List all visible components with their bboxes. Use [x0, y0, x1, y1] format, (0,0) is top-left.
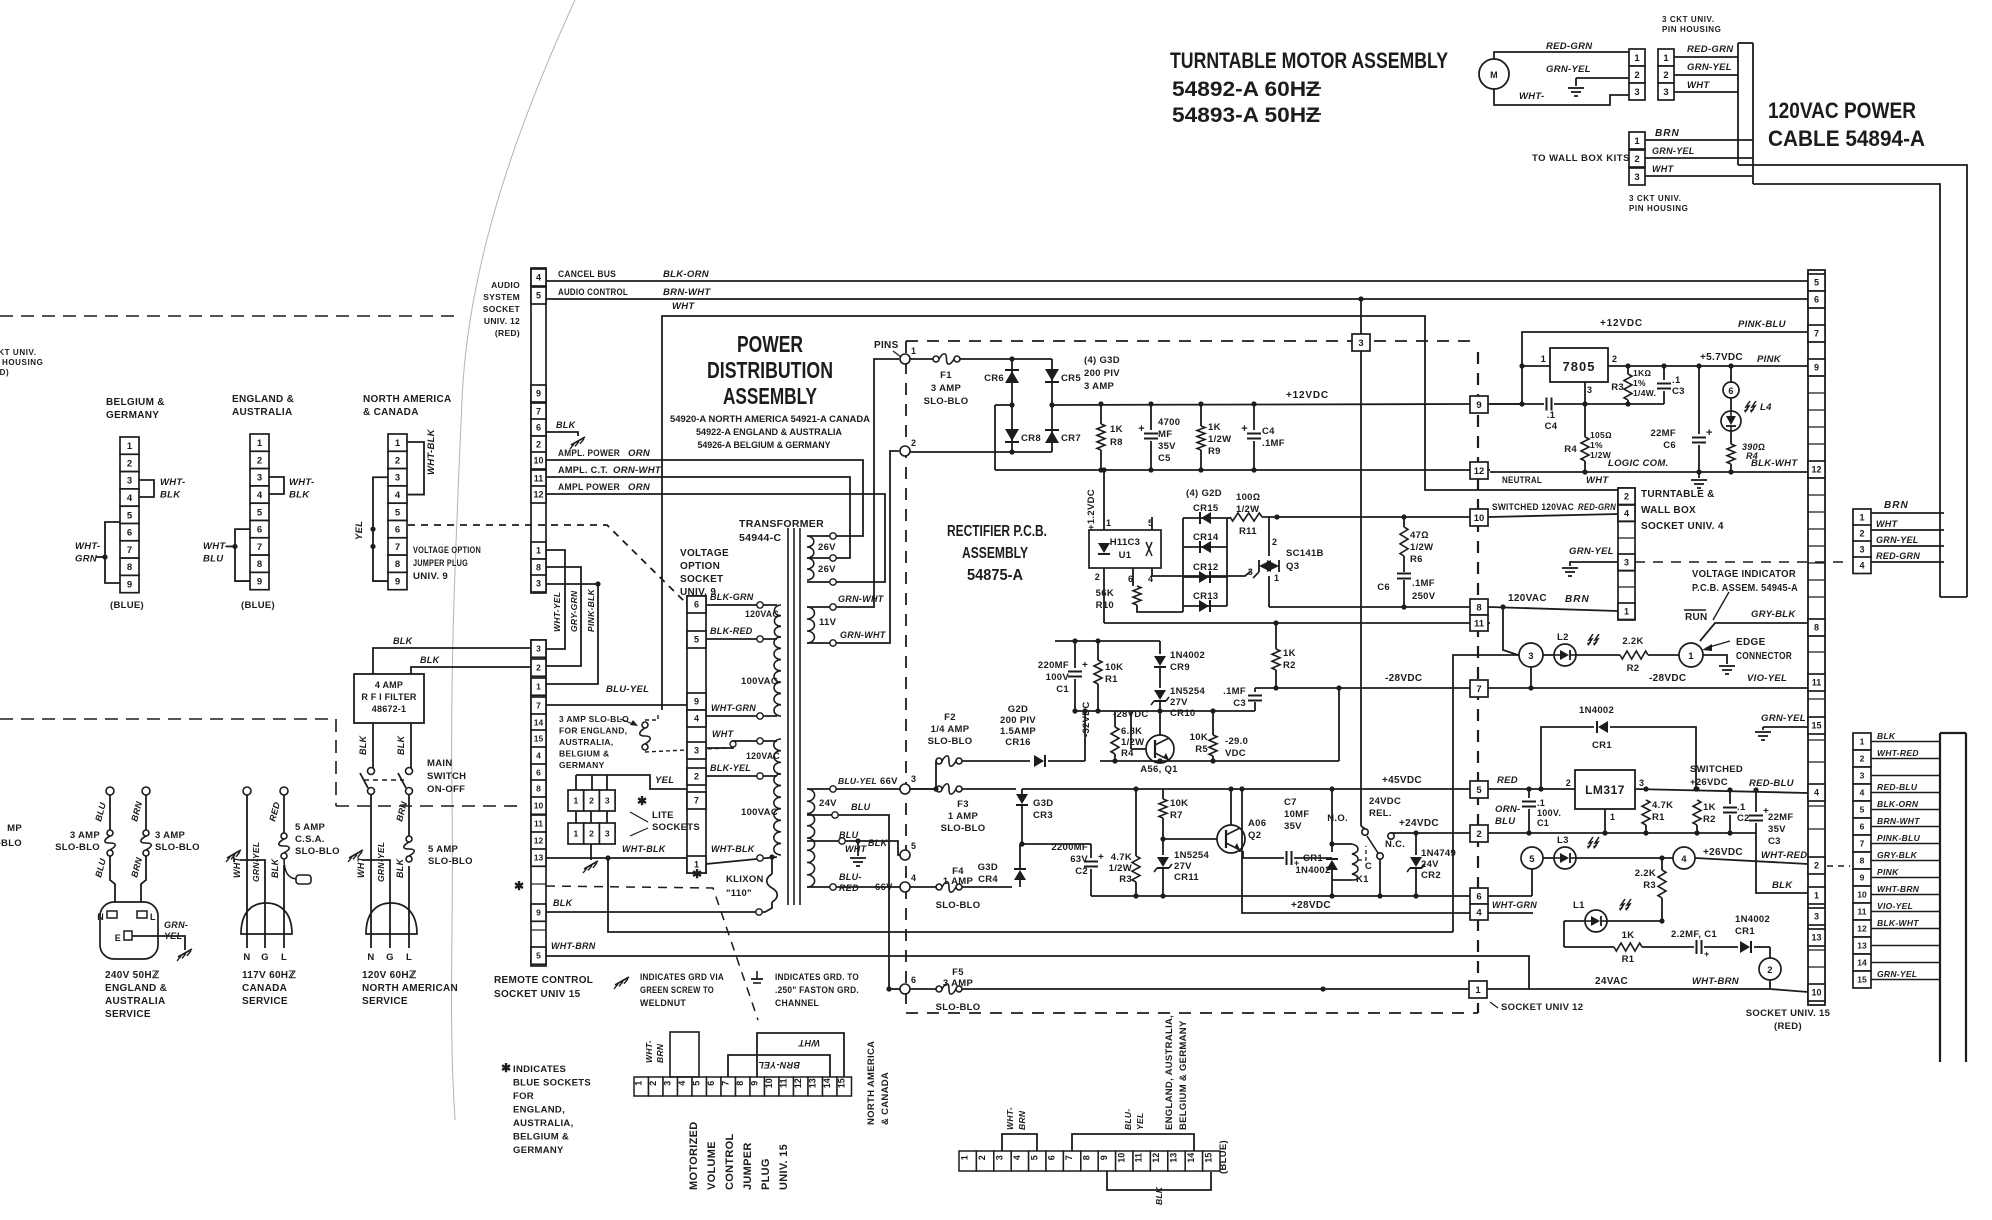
svg-text:SOCKETS: SOCKETS [652, 822, 700, 833]
ground 120V NA service [349, 850, 363, 858]
wire AMPL POWER ORN pin10 [546, 460, 863, 536]
svg-text:1: 1 [536, 682, 541, 692]
svg-text:100V.: 100V. [1537, 808, 1561, 818]
svg-text:+: + [1241, 423, 1248, 435]
svg-text:35V: 35V [1284, 821, 1302, 832]
svg-text:4: 4 [1012, 1155, 1022, 1160]
svg-text:2: 2 [589, 796, 594, 806]
svg-text:1N4002: 1N4002 [1579, 705, 1614, 716]
svg-text:9: 9 [694, 697, 699, 707]
svg-text:1N4002: 1N4002 [1735, 914, 1770, 925]
svg-text:PINK: PINK [1877, 867, 1899, 877]
svg-text:+26VDC: +26VDC [1690, 777, 1728, 788]
svg-text:WHT-: WHT- [644, 1040, 654, 1063]
svg-text:1N5254: 1N5254 [1174, 850, 1209, 861]
svg-text:1KΩ: 1KΩ [1633, 368, 1651, 378]
svg-text:YEL: YEL [1135, 1113, 1145, 1130]
svg-text:FOR: FOR [513, 1091, 534, 1102]
svg-text:1: 1 [1624, 606, 1629, 616]
svg-text:R3: R3 [1643, 880, 1656, 891]
svg-text:2: 2 [1612, 354, 1617, 364]
svg-text:BLK: BLK [160, 490, 181, 501]
svg-text:BLK: BLK [396, 734, 406, 755]
svg-text:12: 12 [1857, 924, 1867, 934]
svg-text:BLK: BLK [420, 655, 441, 665]
wire BLK RFI right output [410, 723, 412, 768]
pcb pin 1 circle [900, 354, 910, 364]
svg-text:4: 4 [1681, 854, 1687, 865]
svg-text:12: 12 [534, 836, 544, 846]
plug 240V England outline [100, 902, 158, 959]
wire F1 to bridge [960, 358, 1012, 360]
svg-text:3: 3 [605, 829, 610, 839]
svg-text:1: 1 [1610, 812, 1615, 822]
svg-text:2: 2 [536, 663, 541, 673]
svg-text:ENGLAND, AUSTRALIA,: ENGLAND, AUSTRALIA, [1164, 1015, 1175, 1130]
svg-text:RECTIFIER P.C.B.: RECTIFIER P.C.B. [947, 523, 1047, 540]
optoisolator U1 H11C3 [1103, 470, 1105, 530]
tap GRN-WHT bottom [807, 642, 831, 644]
jumper YEL pins3-9 North America [373, 477, 388, 581]
svg-text:A06: A06 [1248, 818, 1266, 829]
svg-text:BLU: BLU [1495, 816, 1516, 827]
resistor R1d 1K [1614, 943, 1642, 951]
wire logic common rail [995, 469, 1470, 471]
wire ORN-BLU box2 to LM317 pin1 [1490, 832, 1756, 834]
svg-text:6: 6 [536, 768, 541, 778]
svg-text:35V: 35V [1768, 824, 1786, 835]
svg-text:2: 2 [1814, 861, 1819, 871]
svg-text:BRN: BRN [1884, 500, 1909, 511]
svg-text:BLK: BLK [868, 838, 889, 848]
svg-text:UNIV. 9: UNIV. 9 [413, 571, 448, 582]
diode CR4 G3D [962, 886, 1012, 888]
bridge rails [1012, 358, 1052, 360]
tap 26V mid [807, 557, 831, 559]
svg-text:SERVICE: SERVICE [105, 1009, 151, 1020]
wire 24VAC to box1 [962, 988, 1469, 990]
wire switched 120 rail in pcb [1262, 516, 1470, 518]
svg-text:9: 9 [127, 579, 132, 590]
svg-text:10MF: 10MF [1284, 809, 1309, 820]
LED L4 [1730, 398, 1732, 411]
svg-text:L: L [406, 952, 412, 963]
svg-text:SLO-BLO: SLO-BLO [924, 396, 969, 407]
far right connector univ 15 [1853, 733, 1871, 750]
svg-text:14: 14 [1186, 1153, 1196, 1163]
wire GRN-YEL J2-2 [1645, 157, 1753, 159]
regulator LM317 [1575, 770, 1635, 809]
wire BRN cable [1871, 512, 1944, 514]
svg-text:.250" FASTON GRD.: .250" FASTON GRD. [775, 985, 859, 996]
svg-text:RED-GRN: RED-GRN [1876, 551, 1920, 561]
LED L2 [1543, 654, 1554, 656]
svg-text:INDICATES: INDICATES [513, 1064, 566, 1075]
wire 7805 pin3 [1584, 382, 1586, 404]
svg-text:1%: 1% [1633, 378, 1646, 388]
svg-text:8: 8 [536, 784, 541, 794]
svg-text:GRN-YEL: GRN-YEL [1877, 969, 1917, 979]
svg-text:3 CKT UNIV.: 3 CKT UNIV. [1629, 194, 1682, 203]
svg-text:MAIN: MAIN [427, 758, 452, 769]
svg-text:6: 6 [536, 423, 541, 433]
wire WHT-YEL audio pin1 to remote pin3 [546, 550, 565, 649]
svg-text:BELGIUM &: BELGIUM & [106, 397, 165, 408]
svg-text:✱: ✱ [514, 879, 524, 893]
svg-text:5: 5 [127, 510, 133, 521]
svg-text:VIO-YEL: VIO-YEL [1877, 901, 1913, 911]
resistor R1c 4.7K [1642, 800, 1650, 825]
resistor R2 1K upper [1275, 623, 1277, 649]
dashed callout to volume jumper [546, 886, 758, 1020]
svg-text:-BLO: -BLO [0, 838, 22, 849]
svg-text:5: 5 [694, 635, 699, 645]
svg-text:N: N [243, 952, 250, 963]
svg-text:REL.: REL. [1369, 808, 1392, 819]
svg-text:35V: 35V [1158, 441, 1176, 452]
svg-text:BRN: BRN [1017, 1110, 1027, 1130]
diode CR6 [1005, 371, 1019, 383]
far right connector 4 pin [1853, 509, 1871, 526]
dashed boundary bottom left [0, 718, 336, 720]
capacitor C1d 2.2MF [1642, 946, 1694, 948]
mini rail upper [1055, 640, 1160, 642]
svg-text:ORN-WHT: ORN-WHT [613, 465, 662, 476]
svg-text:WHT-: WHT- [1519, 91, 1544, 102]
pcb plug pin 9 box [1470, 403, 1490, 405]
svg-text:L3: L3 [1557, 835, 1569, 846]
indicator circle 5 [1521, 847, 1543, 869]
wire +12VDC rail [1052, 404, 1470, 405]
svg-text:R8: R8 [1110, 437, 1123, 448]
jumper WHT-BLU pins6-9 England [235, 529, 250, 581]
svg-text:C2: C2 [1075, 866, 1088, 877]
svg-text:N.O.: N.O. [1327, 813, 1348, 824]
resistor R3c 2.2K [1661, 858, 1663, 870]
terminal circles 240V plug [106, 787, 114, 795]
svg-text:1: 1 [1475, 985, 1481, 996]
ground audio pin6 [571, 437, 585, 445]
mini rail mid [1075, 710, 1255, 712]
svg-text:1/2W: 1/2W [1410, 542, 1433, 553]
svg-text:1: 1 [1859, 512, 1864, 522]
svg-text:BRN-WHT: BRN-WHT [663, 287, 711, 298]
wire U1 pin4 to triac gate [1152, 568, 1251, 576]
wire GRN-YEL cable [1871, 545, 1944, 547]
svg-text:1.5AMP: 1.5AMP [1000, 726, 1036, 737]
svg-text:SLO-BLO: SLO-BLO [928, 736, 973, 747]
svg-text:13: 13 [534, 853, 544, 863]
svg-text:3: 3 [1860, 771, 1865, 781]
svg-text:4 AMP: 4 AMP [375, 680, 403, 690]
plug 120V NA dome [366, 903, 417, 934]
svg-text:2: 2 [1272, 537, 1277, 547]
svg-text:CR4: CR4 [978, 874, 998, 885]
ground turntable socket [1562, 567, 1578, 569]
svg-text:120VAC: 120VAC [745, 609, 779, 620]
svg-text:5: 5 [536, 291, 541, 301]
svg-text:BLK: BLK [553, 898, 574, 908]
indicator circle 4 [1673, 847, 1695, 869]
svg-text:-28VDC: -28VDC [1649, 673, 1686, 684]
svg-text:1: 1 [911, 346, 916, 356]
fold crease line [451, 0, 575, 1120]
indicator circle 3 [1519, 643, 1543, 667]
svg-text:+24VDC: +24VDC [1399, 818, 1439, 829]
wire BLU fuse leg [109, 795, 111, 830]
svg-text:VOLTAGE: VOLTAGE [680, 548, 729, 559]
svg-text:ENGLAND &: ENGLAND & [105, 983, 167, 994]
svg-text:-29.0: -29.0 [1225, 736, 1248, 747]
svg-text:2: 2 [1859, 528, 1864, 538]
svg-text:WHT: WHT [712, 729, 735, 739]
svg-text:WHT-BLK: WHT-BLK [426, 428, 437, 475]
svg-text:-28VDC: -28VDC [1385, 673, 1422, 684]
capacitor C2c .1 [1729, 790, 1731, 804]
svg-text:3: 3 [536, 644, 541, 654]
svg-text:4: 4 [1860, 788, 1865, 798]
svg-text:1: 1 [536, 546, 541, 556]
svg-text:24VAC: 24VAC [1595, 976, 1628, 987]
svg-text:✱: ✱ [637, 794, 647, 808]
svg-text:CR2: CR2 [1421, 870, 1441, 881]
svg-text:WHT: WHT [845, 844, 868, 854]
svg-text:7: 7 [395, 542, 400, 553]
svg-text:CHANNEL: CHANNEL [775, 998, 819, 1009]
svg-text:(RED): (RED) [495, 328, 520, 338]
svg-text:Q3: Q3 [1286, 561, 1299, 572]
svg-text:1K: 1K [1208, 422, 1221, 433]
svg-text:3: 3 [995, 1155, 1005, 1160]
wire BRN below fuse [141, 856, 146, 902]
svg-text:WHT: WHT [1876, 519, 1899, 529]
svg-text:22MF: 22MF [1768, 812, 1793, 823]
svg-text:3: 3 [1639, 778, 1644, 788]
svg-text:SERVICE: SERVICE [242, 996, 288, 1007]
svg-text:2: 2 [1634, 154, 1639, 165]
svg-text:66V: 66V [875, 882, 893, 893]
svg-text:L2: L2 [1557, 632, 1569, 643]
wire CR3 CR4 junction [1020, 843, 1022, 845]
wire PINK-BLK audio pin3 to remote pin1 [546, 584, 598, 684]
svg-text:BLU: BLU [851, 802, 871, 812]
svg-text:UNIV. 15: UNIV. 15 [778, 1144, 790, 1190]
wire wht-blk long vertical right [1453, 655, 1519, 932]
ground note faston [756, 971, 758, 979]
svg-text:1: 1 [573, 829, 578, 839]
svg-text:9: 9 [257, 576, 262, 587]
svg-text:R F I FILTER: R F I FILTER [361, 692, 417, 702]
svg-text:5: 5 [1814, 278, 1819, 288]
svg-text:BLK: BLK [289, 490, 310, 501]
jumper box pins3-4 [670, 1032, 699, 1077]
svg-text:C.S.A.: C.S.A. [295, 834, 325, 845]
svg-text:3 AMP: 3 AMP [943, 978, 974, 989]
svg-text:RED-GRN: RED-GRN [1546, 41, 1593, 52]
svg-text:3: 3 [694, 746, 699, 756]
svg-text:CANCEL BUS: CANCEL BUS [558, 269, 616, 280]
svg-text:WALL BOX: WALL BOX [1641, 505, 1696, 516]
svg-text:BLK: BLK [270, 857, 280, 878]
svg-text:SWITCHED 120VAC: SWITCHED 120VAC [1492, 502, 1574, 513]
diode CR3 G3D [1016, 794, 1028, 804]
svg-text:NEUTRAL: NEUTRAL [1502, 475, 1542, 486]
capacitor C4 .1MF [1253, 404, 1255, 430]
wire switched 26 rail [1635, 789, 1808, 793]
wire +45 rail [1022, 788, 1163, 790]
svg-text:RED: RED [1497, 775, 1518, 786]
svg-text:4: 4 [1859, 560, 1864, 570]
svg-text:1N5254: 1N5254 [1170, 686, 1205, 697]
svg-text:PIN HOUSING: PIN HOUSING [1662, 25, 1722, 34]
wire RUN GRY-BLK to pin8 [1700, 623, 1808, 641]
capacitor C5 4700MF [1150, 404, 1152, 430]
svg-text:C3: C3 [1672, 386, 1685, 397]
svg-text:7: 7 [720, 1081, 730, 1086]
wire logic com to pin 12 [1490, 471, 1808, 473]
svg-text:12: 12 [1811, 465, 1821, 475]
right socket strip univ 15 [1808, 270, 1825, 1005]
svg-text:.1: .1 [1537, 798, 1545, 808]
jumper WHT-BLK pins3-4 England [269, 477, 284, 494]
svg-text:1/2W: 1/2W [1236, 504, 1259, 515]
svg-text:7: 7 [536, 701, 541, 711]
pcb pin 6 circle [900, 984, 910, 994]
svg-text:9: 9 [1814, 363, 1819, 373]
svg-text:4: 4 [536, 751, 541, 761]
svg-text:6: 6 [1476, 891, 1481, 902]
svg-text:8: 8 [1860, 856, 1865, 866]
svg-text:5: 5 [1029, 1155, 1039, 1160]
svg-text:GREEN SCREW TO: GREEN SCREW TO [640, 985, 714, 996]
svg-text:5 AMP: 5 AMP [428, 844, 459, 855]
svg-text:1: 1 [1688, 651, 1694, 662]
svg-text:9: 9 [395, 576, 400, 587]
svg-text:MF: MF [1158, 429, 1172, 440]
svg-text:SOCKET UNIV 15: SOCKET UNIV 15 [494, 989, 581, 1000]
svg-text:4: 4 [1476, 907, 1482, 918]
wire whtgrn box4 stub [1490, 912, 1533, 914]
triac Q3 SC141B [1268, 517, 1270, 556]
svg-text:GRN-YEL: GRN-YEL [1761, 713, 1806, 724]
svg-text:OPTION: OPTION [680, 561, 720, 572]
svg-text:C4: C4 [1545, 421, 1558, 432]
svg-text:3: 3 [1358, 338, 1363, 349]
svg-text:.1MF: .1MF [1262, 438, 1285, 449]
svg-text:11: 11 [534, 819, 543, 829]
plug 117V dome [241, 903, 292, 934]
svg-text:GRN-YEL: GRN-YEL [1876, 535, 1919, 545]
svg-text:GRN-YEL: GRN-YEL [1652, 146, 1695, 156]
svg-text:5: 5 [1860, 805, 1865, 815]
svg-text:CR12: CR12 [1193, 562, 1219, 573]
svg-text:.1: .1 [1672, 375, 1681, 386]
svg-text:4.7K: 4.7K [1652, 800, 1673, 811]
wire -28VDC to box7 [1255, 687, 1470, 689]
pcb plug pin 7 box [1470, 687, 1490, 689]
svg-text:3: 3 [662, 1081, 672, 1086]
svg-text:G3D: G3D [1033, 798, 1053, 809]
svg-text:LOGIC COM.: LOGIC COM. [1608, 458, 1669, 469]
svg-text:BRN: BRN [655, 1043, 665, 1063]
primary winding 100VAC upper [774, 637, 781, 716]
capacitor C3b .1 [1663, 366, 1665, 380]
wire RED-GRN cable [1871, 561, 1944, 563]
tap 26V top [807, 535, 831, 537]
svg-text:47Ω: 47Ω [1410, 530, 1429, 541]
svg-text:2: 2 [1476, 829, 1481, 840]
tap BLU-RED 66V bottom [807, 886, 831, 888]
svg-text:MOTORIZED: MOTORIZED [688, 1122, 700, 1191]
svg-text:BLK-YEL: BLK-YEL [710, 763, 751, 773]
wire BRN J2-1 [1645, 139, 1753, 141]
svg-text:13: 13 [1857, 941, 1867, 951]
jumper WHT-BLK pins3-4 Belgium [139, 480, 154, 497]
svg-text:RUN: RUN [1685, 612, 1708, 623]
svg-text:7: 7 [127, 545, 132, 556]
svg-text:EDGE: EDGE [1736, 637, 1766, 648]
svg-text:C6: C6 [1377, 582, 1390, 593]
tap BLU-WHT center [807, 840, 840, 842]
svg-text:Q2: Q2 [1248, 830, 1261, 841]
svg-text:ON-OFF: ON-OFF [427, 784, 465, 795]
svg-text:3 AMP SLO-BLO: 3 AMP SLO-BLO [559, 714, 629, 724]
svg-text:GRN-WHT: GRN-WHT [840, 630, 887, 640]
svg-text:GERMANY: GERMANY [106, 410, 159, 421]
svg-text:+: + [1098, 852, 1104, 863]
svg-text:120VAC: 120VAC [1508, 593, 1547, 604]
svg-text:100V: 100V [1046, 672, 1070, 683]
svg-text:WHT-BRN: WHT-BRN [1877, 884, 1920, 894]
svg-text:1: 1 [1634, 53, 1640, 64]
fuse 3 AMP SLO-BLO england dotted [642, 722, 648, 728]
svg-text:KLIXON: KLIXON [726, 874, 764, 885]
svg-text:UNIV. 12: UNIV. 12 [484, 316, 520, 326]
svg-text:WELDNUT: WELDNUT [640, 998, 686, 1009]
svg-text:12: 12 [533, 490, 543, 500]
svg-text:GRY-BLK: GRY-BLK [1877, 850, 1918, 860]
svg-text:2: 2 [1566, 778, 1571, 788]
svg-text:2: 2 [589, 829, 594, 839]
svg-text:F2: F2 [944, 712, 956, 723]
svg-text:AUSTRALIA,: AUSTRALIA, [513, 1118, 574, 1129]
svg-text:2: 2 [1624, 491, 1629, 501]
svg-text:1/2W: 1/2W [1208, 434, 1231, 445]
diode CR12 [1183, 576, 1227, 578]
diode CR7 [1045, 431, 1059, 443]
wire GRN-YEL pin15 ground [1763, 726, 1808, 728]
svg-text:4: 4 [1814, 788, 1819, 798]
ground 117V service [227, 850, 241, 858]
wire YEL lite sockets to option pin7 [575, 775, 577, 790]
svg-text:1K: 1K [1622, 930, 1635, 941]
rectifier pcb dashed outline [906, 340, 1352, 342]
resistor R5 10K [1212, 711, 1214, 735]
svg-text:12: 12 [1474, 466, 1485, 477]
svg-text:3: 3 [1624, 557, 1629, 567]
svg-text:R3: R3 [1119, 874, 1132, 885]
svg-text:WHT: WHT [356, 855, 366, 878]
svg-text:G: G [261, 952, 269, 963]
svg-text:CR10: CR10 [1170, 708, 1196, 719]
svg-text:10: 10 [1116, 1153, 1126, 1163]
regulator 7805 [1522, 365, 1550, 367]
svg-text:100VAC: 100VAC [741, 676, 778, 687]
wire SWITCHED 120VAC RED-GRN [1490, 514, 1618, 517]
primary winding 100VAC lower [774, 774, 781, 855]
england bracket pins3-5 WHT-BRN [1002, 1134, 1037, 1151]
svg-text:10: 10 [764, 1078, 774, 1088]
